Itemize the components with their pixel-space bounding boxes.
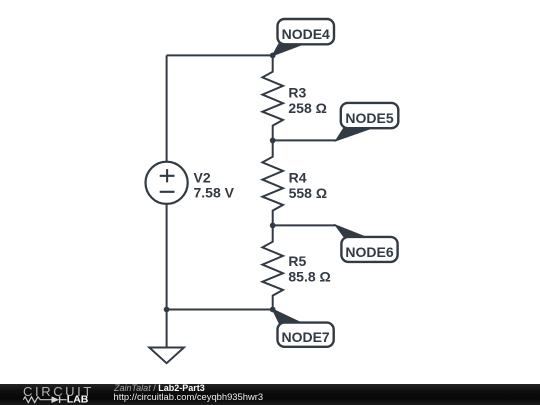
svg-text:558 Ω: 558 Ω [289, 185, 327, 201]
node NODE4 callout [273, 19, 334, 55]
label R4 [289, 170, 327, 202]
resistor R5 [262, 225, 283, 309]
svg-text:R4: R4 [289, 170, 307, 186]
svg-text:NODE6: NODE6 [345, 244, 393, 260]
label V2 value [194, 169, 235, 200]
label R5 [288, 253, 330, 285]
wire V2 bottom lead [166, 204, 168, 310]
svg-text:LAB: LAB [67, 394, 89, 405]
svg-text:R3: R3 [288, 84, 306, 100]
svg-text:258 Ω: 258 Ω [288, 100, 326, 116]
svg-text:NODE7: NODE7 [281, 329, 329, 345]
footer credits [114, 383, 205, 393]
junction dot node E (NODE7 left / ground) [164, 307, 170, 313]
junction dot node A (NODE4) [270, 53, 276, 59]
footer bar [0, 384, 540, 405]
voltage source V2 [146, 162, 188, 204]
svg-text:NODE5: NODE5 [345, 110, 393, 126]
CircuitLab logo [0, 384, 100, 405]
node NODE7 callout [273, 310, 334, 347]
junction dot node D (NODE7 right) [270, 307, 276, 313]
svg-text:85.8 Ω: 85.8 Ω [288, 269, 330, 285]
node NODE6 callout [336, 225, 398, 262]
wire NODE5 stub [273, 139, 336, 141]
junction dot node B (NODE5) [270, 138, 276, 144]
wire left vertical to V2 top [166, 55, 168, 161]
resistor R3 [262, 55, 283, 140]
resistor R4 [262, 140, 283, 225]
label R3 [288, 84, 326, 116]
wire NODE6 stub [273, 224, 336, 226]
ground [149, 310, 184, 364]
svg-text:NODE4: NODE4 [282, 26, 330, 42]
node NODE5 callout [336, 103, 398, 140]
wire top horizontal [167, 54, 273, 56]
junction dot node C (NODE6) [270, 223, 276, 229]
wire bottom horizontal [167, 309, 273, 311]
svg-text:R5: R5 [288, 253, 306, 269]
svg-text:V2: V2 [194, 169, 211, 185]
svg-text:7.58 V: 7.58 V [194, 185, 235, 201]
